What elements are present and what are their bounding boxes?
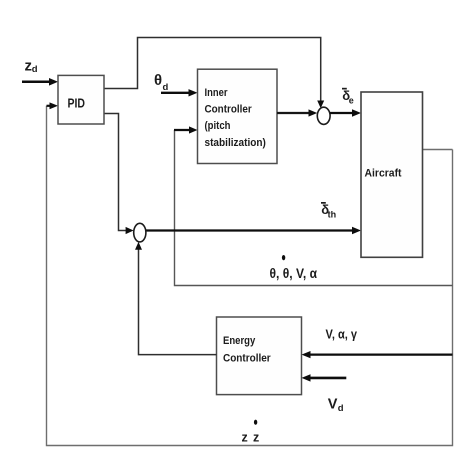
wire: outer feedback bottom line z,zdot (47, 106, 453, 446)
label z zdot (242, 420, 260, 445)
summing junction S1 (317, 107, 330, 124)
svg-text:Aircraft: Aircraft (365, 168, 402, 180)
svg-text:d: d (163, 82, 169, 93)
wire: energy controller output up into S2 (135, 242, 217, 355)
wire: Vd input arrow (302, 374, 347, 381)
svg-text:th: th (328, 210, 337, 220)
svg-text:Energy: Energy (223, 335, 256, 347)
label Vd (328, 397, 344, 415)
wire: state feedback line theta thetadot V alpha (175, 130, 453, 286)
wire: zd input arrow (22, 78, 58, 86)
svg-text:V: V (328, 397, 338, 413)
wire: theta_d input arrow (161, 89, 198, 96)
svg-text:z: z (242, 431, 248, 445)
wire: z feedback arrow into PID (47, 102, 59, 109)
wire: S1 output delta_e to aircraft (330, 109, 361, 116)
svg-text:Controller: Controller (223, 353, 271, 365)
label delta_th (321, 202, 336, 220)
block inner controller U1 (198, 69, 278, 163)
wire: arrow into inner controller second input (174, 126, 198, 133)
wire: aircraft output tap to right vertical (423, 149, 453, 151)
label V alpha gamma (326, 327, 358, 342)
svg-text:e: e (349, 96, 354, 106)
svg-text:PID: PID (68, 97, 86, 111)
svg-text:stabilization): stabilization) (205, 137, 267, 149)
block energy controller (217, 317, 302, 395)
svg-text:θ: θ (154, 72, 162, 89)
svg-text:θ, θ, V, α: θ, θ, V, α (270, 266, 318, 281)
wire: V alpha gamma input arrow (302, 351, 453, 358)
label theta_d (154, 72, 169, 93)
wire: PID lower output down to summing junction S2 (104, 114, 134, 235)
svg-text:Controller: Controller (205, 104, 253, 116)
block aircraft (361, 92, 423, 257)
svg-text:Inner: Inner (205, 87, 229, 99)
label theta thetadot V alpha (270, 255, 318, 281)
label delta_e (342, 88, 354, 106)
svg-text:(pitch: (pitch (205, 120, 231, 132)
summing junction S2 (134, 223, 146, 242)
block PID (58, 75, 104, 124)
svg-text:d: d (338, 403, 344, 414)
svg-text:d: d (32, 64, 38, 75)
svg-text:V, α, γ: V, α, γ (326, 327, 358, 342)
label zd (25, 58, 38, 75)
wire: inner controller output to S1 (277, 109, 317, 116)
wire: PID upper output to summing junction S1 via top line (104, 38, 324, 109)
wire: S2 output delta_th to aircraft (146, 227, 361, 234)
svg-text:z: z (253, 431, 259, 445)
